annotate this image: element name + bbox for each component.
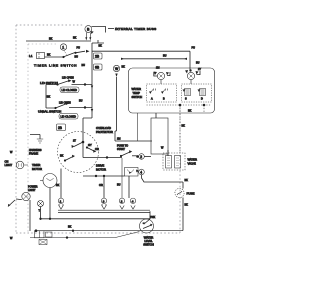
- wire border to lamp: [16, 198, 22, 201]
- svg-text:GY: GY: [88, 144, 92, 147]
- motor lead aux: [121, 158, 123, 198]
- wire merge arrow 2: [91, 109, 93, 112]
- lid closed tag 1: [60, 87, 79, 93]
- svg-text:2B: 2B: [58, 126, 62, 130]
- motor winding wire: [82, 142, 84, 158]
- temp switch bottom dashed bus: [147, 104, 212, 106]
- fuse: [175, 188, 184, 197]
- wire to level switch: [115, 232, 140, 238]
- svg-text:PNK: PNK: [150, 216, 155, 219]
- cam 3 right arrow: [196, 71, 199, 75]
- svg-text:OR: OR: [99, 184, 103, 187]
- svg-text:LID CLOSED: LID CLOSED: [61, 115, 77, 119]
- svg-text:A: A: [151, 98, 153, 101]
- wire lid sw 1 to buss: [72, 84, 93, 86]
- motor run contact: [87, 148, 95, 152]
- svg-text:W: W: [161, 147, 164, 150]
- buzzer B: [85, 26, 92, 33]
- svg-text:START: START: [117, 148, 125, 151]
- svg-text:PU: PU: [77, 47, 81, 50]
- line wire to right block: [92, 51, 190, 70]
- cabinet dashed border left: [15, 25, 17, 233]
- svg-text:2M: 2M: [156, 67, 159, 70]
- wire to fuse line: [142, 175, 184, 182]
- svg-text:ON: ON: [5, 160, 9, 164]
- timer contact W: [113, 65, 119, 71]
- svg-text:SWITCH: SWITCH: [143, 243, 154, 247]
- svg-text:BU: BU: [82, 64, 86, 67]
- terminal 4: [130, 198, 135, 203]
- lamp lead: [40, 207, 42, 219]
- contact B1: [185, 89, 191, 96]
- junction arrow: [86, 50, 90, 53]
- circled 4: [139, 169, 145, 175]
- svg-text:HARNESS: HARNESS: [29, 148, 42, 152]
- drop to relay box: [155, 113, 157, 118]
- svg-text:PU: PU: [192, 47, 196, 50]
- motor start contact: [65, 156, 74, 161]
- svg-text:BK: BK: [182, 125, 186, 128]
- wire stub top right: [92, 40, 104, 43]
- svg-text:BU: BU: [79, 100, 83, 103]
- cabinet dashed border bottom: [16, 232, 180, 234]
- svg-text:BK: BK: [122, 66, 126, 69]
- svg-text:B: B: [87, 27, 90, 31]
- wire L1 to timer line switch: [45, 56, 64, 58]
- svg-text:1: 1: [60, 199, 62, 203]
- lid switch blade 2: [46, 104, 67, 109]
- bottom line 2: [30, 237, 115, 239]
- svg-text:BK: BK: [60, 155, 64, 158]
- indicator lamp small: [38, 201, 44, 207]
- svg-text:FRAME: FRAME: [29, 152, 38, 156]
- water valve box: [163, 153, 185, 170]
- aux contact box: [125, 168, 139, 177]
- wire lid sw 2 to buss: [69, 107, 92, 109]
- bottom line 1: [36, 230, 183, 232]
- timer motor: [43, 174, 57, 188]
- terminal box 6B: [94, 64, 103, 70]
- svg-text:BK: BK: [99, 45, 103, 48]
- chassis ground: [30, 135, 40, 140]
- internal timer buss arrow: [108, 28, 114, 30]
- svg-text:S: S: [185, 98, 187, 101]
- cabinet dashed border right: [179, 106, 181, 233]
- push to start wire: [115, 131, 152, 141]
- console dashed top: [28, 43, 57, 45]
- valve coil 1: [166, 156, 172, 169]
- svg-text:LID CLOSED: LID CLOSED: [62, 88, 78, 92]
- svg-text:2Y: 2Y: [198, 68, 201, 71]
- svg-text:BK: BK: [185, 179, 189, 182]
- bus drop to water level switch: [149, 211, 151, 219]
- motor node: [82, 141, 84, 143]
- svg-text:W: W: [10, 151, 13, 154]
- timer block box: [129, 68, 215, 113]
- svg-text:DRIVE: DRIVE: [96, 164, 104, 168]
- svg-text:4: 4: [140, 171, 142, 175]
- water level switch: [140, 219, 154, 233]
- svg-text:INTERNAL TIMER BUSS: INTERNAL TIMER BUSS: [115, 27, 157, 31]
- connector block: [35, 231, 45, 238]
- buzzer leads: [86, 33, 90, 38]
- buss hook wire: [92, 27, 106, 33]
- svg-text:2B: 2B: [95, 55, 100, 59]
- motor output line 2: [83, 175, 125, 177]
- svg-text:BK: BK: [73, 37, 77, 40]
- terminal box 2B motor: [57, 124, 66, 131]
- svg-text:BK: BK: [49, 38, 53, 41]
- svg-text:SWITCH: SWITCH: [132, 95, 143, 99]
- cam 1 dashed linkage: [64, 51, 67, 55]
- svg-text:4: 4: [132, 199, 134, 203]
- svg-text:MOTOR: MOTOR: [32, 167, 42, 171]
- svg-text:OVERLOAD: OVERLOAD: [96, 126, 111, 130]
- svg-text:BK: BK: [56, 184, 60, 187]
- svg-text:1: 1: [62, 45, 64, 49]
- terminal 1: [58, 198, 63, 203]
- svg-text:W: W: [10, 237, 13, 240]
- motor terminal bus: [58, 209, 150, 211]
- wire drop to motor: [83, 118, 92, 142]
- lid switch blade 1: [58, 81, 70, 85]
- svg-text:BU: BU: [163, 55, 167, 58]
- start switch blade: [121, 152, 131, 157]
- svg-text:L1: L1: [29, 54, 33, 58]
- wire merge arrow 1: [91, 86, 93, 89]
- svg-text:LEVEL: LEVEL: [144, 239, 153, 243]
- terminal 3: [101, 198, 106, 203]
- svg-text:2: 2: [140, 155, 142, 159]
- terminal box 2B: [94, 53, 103, 59]
- svg-text:OR: OR: [95, 148, 99, 151]
- svg-text:WATER: WATER: [188, 158, 197, 162]
- svg-text:BU: BU: [196, 62, 200, 65]
- timer buss vertical: [91, 43, 93, 118]
- svg-text:2: 2: [121, 199, 123, 203]
- svg-text:BU: BU: [117, 184, 121, 187]
- svg-text:WATER: WATER: [132, 87, 141, 91]
- svg-text:2T: 2T: [73, 140, 76, 143]
- svg-text:TIMER: TIMER: [32, 163, 40, 167]
- svg-text:TIMER LINE SWITCH: TIMER LINE SWITCH: [34, 64, 77, 68]
- neutral bus line: [40, 218, 150, 220]
- dashed stub: [203, 105, 205, 113]
- temp switch dashed box B: [182, 84, 212, 102]
- wire switch to node: [76, 51, 86, 53]
- svg-text:LIGHT: LIGHT: [28, 189, 36, 192]
- svg-text:2M: 2M: [117, 138, 120, 141]
- timer motor lead: [49, 188, 51, 219]
- cam 2 right arrow: [166, 72, 169, 75]
- timer cam contact 3: [187, 72, 194, 79]
- svg-text:VALVE: VALVE: [188, 162, 196, 166]
- connector tag: [46, 232, 53, 237]
- svg-text:UNBAL SWITCH: UNBAL SWITCH: [38, 110, 61, 114]
- circled 2: [139, 154, 145, 160]
- svg-text:LIGHT: LIGHT: [5, 163, 13, 167]
- svg-text:BK: BK: [188, 110, 192, 113]
- lid closed tag 2: [59, 114, 78, 120]
- start switch node: [137, 156, 139, 158]
- timer line switch blade: [63, 53, 75, 58]
- contact arrow below W: [115, 74, 117, 78]
- lamp lead down: [29, 200, 31, 231]
- svg-text:3: 3: [103, 199, 105, 203]
- cam 2 left arrow: [154, 72, 158, 76]
- svg-text:FUSE: FUSE: [187, 192, 195, 196]
- svg-text:BK: BK: [68, 226, 72, 229]
- svg-text:PROTECTOR: PROTECTOR: [96, 130, 113, 134]
- power plug P1: [37, 53, 45, 59]
- svg-text:W: W: [115, 67, 119, 71]
- cam 3 left arrow: [185, 70, 188, 74]
- cabinet dashed border top: [16, 24, 84, 26]
- svg-text:B: B: [163, 98, 165, 101]
- svg-text:D: D: [201, 98, 203, 101]
- svg-text:BK: BK: [185, 204, 189, 207]
- contact A1: [150, 89, 156, 94]
- on light lamp: [16, 161, 24, 169]
- contact B2: [200, 89, 206, 96]
- connector box X: [39, 240, 47, 245]
- valve coil 2: [175, 156, 181, 169]
- wire box down: [128, 176, 130, 198]
- lid switch feed vertical: [46, 85, 58, 109]
- terminal 2: [119, 198, 124, 203]
- timer cam 1: [60, 44, 66, 50]
- svg-text:TEMP: TEMP: [133, 91, 141, 95]
- motor lead 3: [103, 176, 105, 198]
- temp switch dashed box A: [147, 84, 177, 102]
- wire relay to valve: [167, 150, 169, 156]
- console dashed divider: [27, 44, 29, 232]
- svg-text:LID OPEN: LID OPEN: [62, 77, 74, 80]
- svg-text:BK: BK: [47, 96, 51, 99]
- contact A2: [162, 89, 168, 94]
- svg-text:6B: 6B: [95, 66, 100, 70]
- overload contact: [74, 142, 83, 147]
- svg-text:MOTOR: MOTOR: [96, 167, 106, 171]
- svg-text:BK: BK: [47, 54, 51, 57]
- power light lamp: [22, 192, 30, 200]
- wire buss to winding tap: [122, 58, 186, 60]
- wire to relay: [144, 156, 151, 158]
- motor lead 1: [60, 169, 62, 199]
- svg-text:BU: BU: [75, 56, 79, 59]
- timer cam contact 2: [157, 72, 164, 79]
- motor circle dashed: [58, 132, 99, 173]
- dashed drop to valve: [179, 105, 181, 153]
- cam stub wires: [161, 80, 191, 84]
- wire neutral top: [26, 40, 91, 42]
- motor output line 1: [83, 157, 122, 159]
- vertical to bus: [137, 113, 139, 141]
- svg-text:W: W: [73, 81, 76, 84]
- svg-text:WATER: WATER: [144, 236, 153, 240]
- relay box: [151, 118, 168, 154]
